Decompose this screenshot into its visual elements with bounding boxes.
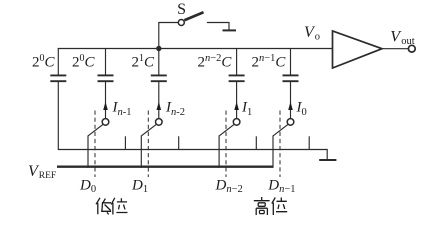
switch pole circle (bit n-1) <box>102 119 109 126</box>
wire: cap col5 bottom to switch pole <box>290 82 292 119</box>
switch blade (bit 1) <box>219 124 234 135</box>
wire: Vref contact (bit n-1) <box>87 136 89 168</box>
wire: Vref contact (bit 0) <box>272 136 274 168</box>
wire: cap col3 bottom to switch pole <box>158 82 160 119</box>
node: junction dot on top bus <box>156 46 161 51</box>
wire: S branch horizontal <box>158 22 178 24</box>
current arrow I_0 <box>288 102 293 110</box>
wire: S branch vertical <box>158 23 160 49</box>
switch blade (bit 0) <box>273 124 288 135</box>
wire: S fixed contact to ground <box>207 23 229 30</box>
capacitor 2^1 C (col 3): wire bus to top plate <box>158 48 160 75</box>
capacitor 2^0 C (termination, col 1): wire bus to top plate <box>57 48 59 75</box>
ground contact tick (bit n-1) <box>124 136 126 150</box>
svg-text:20C: 20C <box>32 53 56 71</box>
wire: termination cap bottom to ground bus <box>57 82 59 150</box>
svg-text:o: o <box>315 31 320 42</box>
ground contact tick (bit 1) <box>255 136 257 150</box>
capacitor 2^0 C (col 2): wire bus to top plate <box>105 48 107 75</box>
wire: cap col2 bottom to switch pole <box>105 82 107 119</box>
switch pole circle (bit n-2) <box>156 119 163 126</box>
control line Dn-1 (dashed) <box>279 111 281 178</box>
capacitor 2^0 C termination plates <box>50 74 66 76</box>
svg-text:20C: 20C <box>72 53 96 71</box>
svg-text:In-1: In-1 <box>112 100 132 119</box>
capacitor 2^1 C plates <box>151 74 167 76</box>
wire: top plate bus <box>58 48 333 50</box>
svg-text:In-2: In-2 <box>165 100 185 119</box>
control line D1 (dashed) <box>147 111 149 178</box>
svg-text:D1: D1 <box>131 178 148 196</box>
op-amp buffer U1 <box>333 31 383 68</box>
switch blade (bit n-2) <box>141 124 156 135</box>
switch S blade <box>184 12 203 20</box>
control line Dn-2 (dashed) <box>225 111 227 178</box>
wire: Vref contact (bit 1) <box>218 136 220 168</box>
svg-text:I0: I0 <box>296 100 307 119</box>
switch blade (bit n-1) <box>88 124 103 135</box>
svg-text:REF: REF <box>39 171 56 181</box>
svg-text:I1: I1 <box>241 100 252 119</box>
switch pole circle (bit 1) <box>233 119 240 126</box>
ground contact tick (bit n-2) <box>178 136 180 150</box>
switch pole circle (bit 0) <box>287 119 294 126</box>
capacitor 2^n-1 C (col 5): wire bus to top plate <box>290 48 292 75</box>
ground (right, bottom) <box>319 159 336 161</box>
capacitor 2^n-2 C (col 4): wire bus to top plate <box>236 48 238 75</box>
svg-text:21C: 21C <box>132 53 156 71</box>
control line D0 (dashed) <box>94 111 96 178</box>
svg-text:S: S <box>177 1 186 18</box>
wire: buffer output <box>382 48 409 50</box>
ground contact tick (bit 0) <box>308 136 310 150</box>
switch S pole contact <box>178 20 184 26</box>
label "high bits" hand-drawn CJK 高位 <box>254 197 287 215</box>
current arrow I_1 <box>234 102 239 110</box>
terminal: Vout <box>408 45 415 52</box>
svg-text:2n−1C: 2n−1C <box>252 53 287 71</box>
wire: Vref rail <box>57 165 273 167</box>
ground (top, near S) <box>223 29 237 31</box>
wire: ground bus <box>58 150 327 160</box>
svg-text:D0: D0 <box>79 178 96 196</box>
wire: Vref contact (bit n-2) <box>140 136 142 168</box>
label "low bits" hand-drawn CJK 低位 <box>96 198 128 215</box>
svg-text:out: out <box>401 36 415 47</box>
svg-text:Dn−2: Dn−2 <box>215 178 243 196</box>
current arrow I_n-2 <box>157 102 162 110</box>
svg-text:2n−2C: 2n−2C <box>198 53 233 71</box>
capacitor 2^0 C plates (col 2) <box>98 74 114 76</box>
wire: cap col4 bottom to switch pole <box>236 82 238 119</box>
current arrow I_n-1 <box>103 102 108 110</box>
svg-text:Dn−1: Dn−1 <box>267 178 295 196</box>
capacitor 2^n-1 C plates <box>283 74 299 76</box>
capacitor 2^n-2 C plates <box>229 74 245 76</box>
